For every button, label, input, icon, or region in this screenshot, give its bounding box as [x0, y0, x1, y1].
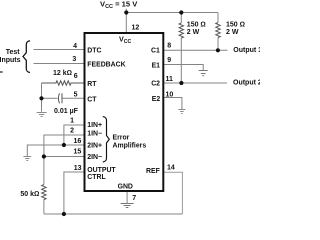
svg-text:Test: Test — [6, 49, 21, 56]
svg-text:1IN+: 1IN+ — [87, 122, 102, 129]
svg-text:8: 8 — [167, 43, 171, 50]
svg-text:VCC = 15 V: VCC = 15 V — [100, 0, 138, 10]
svg-text:13: 13 — [74, 165, 82, 172]
svg-text:3: 3 — [72, 56, 76, 63]
svg-text:Amplifiers: Amplifiers — [113, 143, 147, 150]
svg-text:C1: C1 — [151, 48, 160, 55]
svg-text:15: 15 — [74, 149, 82, 156]
svg-text:6: 6 — [74, 73, 78, 80]
svg-text:150 Ω: 150 Ω — [226, 21, 245, 28]
svg-text:7: 7 — [132, 195, 136, 202]
svg-text:Error: Error — [113, 134, 130, 141]
svg-text:2IN+: 2IN+ — [87, 143, 102, 150]
svg-text:0.01 µF: 0.01 µF — [54, 108, 79, 115]
svg-text:DTC: DTC — [87, 48, 101, 55]
svg-text:5: 5 — [74, 91, 78, 98]
svg-text:Output 1: Output 1 — [233, 47, 260, 54]
svg-text:14: 14 — [167, 164, 175, 171]
svg-text:50 kΩ: 50 kΩ — [20, 191, 39, 198]
svg-text:CTRL: CTRL — [87, 174, 105, 181]
svg-text:16: 16 — [74, 138, 82, 145]
svg-text:Output 2: Output 2 — [233, 80, 260, 87]
svg-text:2IN−: 2IN− — [87, 154, 102, 161]
svg-text:1: 1 — [70, 118, 74, 125]
svg-text:12: 12 — [132, 25, 140, 32]
svg-text:2 W: 2 W — [187, 29, 200, 36]
svg-text:Inputs: Inputs — [0, 57, 21, 64]
svg-text:CT: CT — [87, 96, 97, 103]
svg-text:4: 4 — [73, 43, 77, 50]
svg-text:C2: C2 — [151, 80, 160, 87]
svg-text:2: 2 — [70, 128, 74, 135]
svg-text:FEEDBACK: FEEDBACK — [87, 61, 125, 68]
svg-text:VCC: VCC — [119, 35, 132, 45]
svg-text:11: 11 — [166, 76, 174, 83]
svg-text:10: 10 — [166, 91, 174, 98]
svg-text:GND: GND — [118, 184, 133, 191]
svg-text:E1: E1 — [152, 62, 161, 69]
svg-text:1IN−: 1IN− — [87, 131, 102, 138]
svg-text:9: 9 — [167, 57, 171, 64]
svg-text:150 Ω: 150 Ω — [187, 21, 206, 28]
svg-text:REF: REF — [146, 168, 160, 175]
svg-text:12 kΩ: 12 kΩ — [53, 70, 72, 77]
svg-text:E2: E2 — [152, 96, 161, 103]
svg-text:RT: RT — [87, 81, 97, 88]
svg-text:2 W: 2 W — [226, 29, 239, 36]
